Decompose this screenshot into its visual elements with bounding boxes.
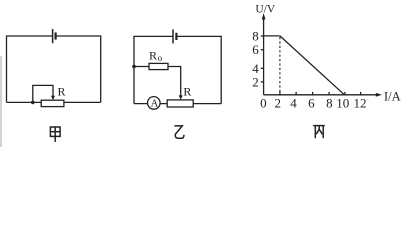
wire: circuit jia top-right and right side: [56, 36, 101, 102]
scan-edge artifact line: [0, 56, 2, 147]
svg-text:I/A: I/A: [384, 89, 401, 103]
axis: X axis of graph: [264, 94, 378, 96]
axis: Y axis of graph: [263, 16, 265, 95]
svg-text:A: A: [151, 99, 159, 110]
svg-text:2: 2: [252, 75, 258, 90]
resistor R (jia) body: [41, 100, 64, 106]
svg-text:Ro: Ro: [149, 49, 163, 63]
svg-text:2: 2: [275, 96, 282, 111]
arrow: Y axis arrowhead: [262, 13, 266, 20]
wire: circuit jia outer loop top-left segment: [7, 36, 53, 102]
tick x=10: [344, 92, 346, 95]
wire: circuit yi bottom: [134, 103, 221, 105]
svg-text:8: 8: [326, 96, 333, 111]
resistor R0 body: [149, 63, 168, 69]
svg-text:U/V: U/V: [255, 4, 276, 16]
tick x=2: [279, 92, 281, 95]
wire: yi R0 branch and wiper lead: [134, 67, 181, 97]
tick x=12: [360, 92, 362, 95]
label yi (Chinese): [174, 126, 184, 138]
tick x=6: [312, 92, 314, 95]
dashed guide at I=2: [279, 37, 281, 95]
node B junction dot: [132, 65, 136, 69]
tick x=4: [295, 92, 297, 95]
arrow: jia wiper arrowhead: [51, 96, 55, 100]
resistor R (yi rheostat) body: [167, 100, 193, 107]
battery B1 short plate: [54, 32, 56, 39]
wire: circuit yi outer loop top-left: [134, 36, 173, 103]
battery B1 long plate: [52, 29, 54, 43]
svg-text:6: 6: [252, 42, 259, 57]
label bing (Chinese): [313, 126, 325, 139]
svg-text:R: R: [58, 85, 66, 99]
tick y=6: [261, 49, 264, 51]
tick y=2: [261, 81, 264, 83]
wire: circuit jia bottom: [7, 101, 101, 103]
battery B2 long plate: [172, 29, 174, 43]
tick y=4: [261, 67, 264, 69]
curve: U=8 plateau: [264, 35, 280, 37]
wire: jia wiper loop: [33, 85, 53, 102]
node A junction dot: [31, 101, 35, 105]
svg-text:0: 0: [260, 96, 267, 111]
svg-text:6: 6: [308, 96, 315, 111]
svg-text:4: 4: [290, 96, 297, 111]
battery B2 short plate: [175, 33, 177, 40]
ammeter A1 circle: [148, 97, 161, 110]
tick y=8: [261, 35, 264, 37]
svg-text:12: 12: [354, 96, 367, 111]
curve: descending U-I line: [280, 36, 345, 95]
tick x=8: [328, 92, 330, 95]
arrow: yi wiper arrowhead: [179, 95, 183, 99]
svg-text:10: 10: [336, 96, 349, 111]
label jia (Chinese): [50, 127, 60, 142]
wire: circuit yi top-right and right side: [176, 36, 221, 103]
svg-text:R: R: [183, 84, 191, 98]
arrow: X axis arrowhead: [376, 93, 382, 97]
